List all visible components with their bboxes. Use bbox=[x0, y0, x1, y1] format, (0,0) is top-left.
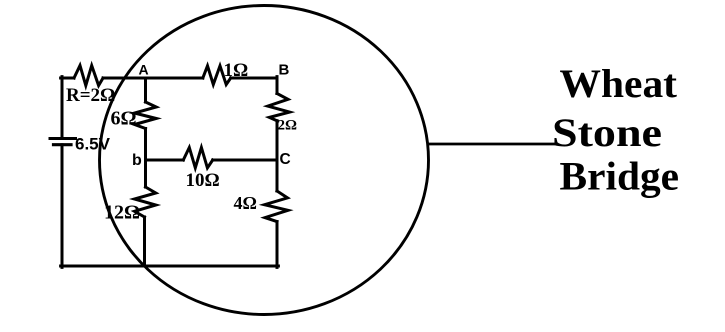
wire right rail 4Ω to bottom corner bbox=[276, 222, 279, 268]
enclosing circle bbox=[100, 6, 429, 315]
resistor R6 (4Ω) zigzag bbox=[265, 191, 289, 222]
svg-text:A: A bbox=[139, 62, 149, 78]
svg-text:12Ω: 12Ω bbox=[104, 202, 140, 224]
svg-text:B: B bbox=[279, 62, 290, 79]
svg-text:b: b bbox=[132, 152, 142, 169]
svg-text:6Ω: 6Ω bbox=[111, 108, 137, 130]
wire node b down to resistor 12Ω bbox=[144, 160, 147, 187]
svg-text:10Ω: 10Ω bbox=[186, 170, 220, 191]
wire right rail B to resistor 2Ω bbox=[276, 77, 279, 94]
resistor R7 (12Ω) zigzag bbox=[135, 187, 156, 217]
wire 6Ω to node b bbox=[144, 129, 147, 161]
resistor R4 (6Ω) zigzag bbox=[135, 102, 157, 129]
wire left rail lower (battery to bottom) bbox=[61, 145, 64, 268]
wire right rail 2Ω to C to 4Ω bbox=[276, 121, 279, 191]
svg-text:1Ω: 1Ω bbox=[224, 60, 249, 81]
wire bottom rail bbox=[61, 265, 279, 268]
svg-text:2Ω: 2Ω bbox=[278, 118, 298, 134]
wire top middle segment bbox=[103, 77, 203, 80]
wire top-left segment bbox=[61, 77, 74, 80]
svg-text:4Ω: 4Ω bbox=[234, 193, 257, 213]
resistor R2 (1Ω) zigzag bbox=[203, 66, 231, 85]
wire left rail upper (to battery) bbox=[61, 77, 64, 139]
svg-text:Bridge: Bridge bbox=[560, 154, 680, 199]
resistor R3 (2Ω) zigzag bbox=[268, 94, 290, 121]
svg-text:C: C bbox=[280, 151, 291, 168]
wire 10Ω to node C bbox=[213, 159, 277, 162]
resistor R1 (R=2Ω) zigzag bbox=[74, 66, 103, 86]
svg-text:R=2Ω: R=2Ω bbox=[66, 85, 115, 106]
wire node A down to resistor 6Ω bbox=[144, 78, 147, 102]
battery BT1 long plate bbox=[50, 137, 76, 140]
wire 12Ω to bottom rail bbox=[143, 217, 146, 266]
pointer line to label bbox=[429, 143, 556, 146]
wire node b to resistor 10Ω bbox=[146, 159, 184, 162]
svg-text:Wheat: Wheat bbox=[560, 61, 678, 106]
svg-text:Stone: Stone bbox=[552, 110, 662, 155]
battery BT1 short plate bbox=[54, 143, 72, 146]
svg-text:6.5V: 6.5V bbox=[75, 135, 111, 154]
wire top-right segment to corner B bbox=[231, 77, 277, 80]
resistor R5 (10Ω) zigzag bbox=[183, 148, 212, 168]
